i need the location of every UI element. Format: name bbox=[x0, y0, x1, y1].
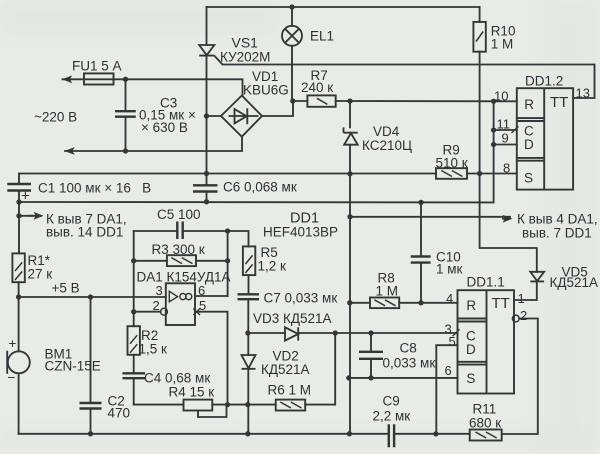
wire DD1.2 pin 11 bbox=[494, 129, 517, 131]
wire VD3 line to DD1.1 pin 3 bbox=[248, 332, 458, 334]
svg-text:2,2 мк: 2,2 мк bbox=[373, 409, 411, 424]
resistor R6 bbox=[276, 400, 306, 411]
svg-text:10: 10 bbox=[494, 89, 508, 104]
svg-text:27 к: 27 к bbox=[28, 267, 53, 282]
svg-text:240 к: 240 к bbox=[301, 80, 333, 95]
label plus minus BM1 bbox=[8, 336, 17, 385]
wire VS1 branch vertical bbox=[206, 7, 208, 202]
svg-text:+5 В: +5 В bbox=[52, 281, 80, 296]
svg-text:+: + bbox=[21, 188, 30, 205]
wire C8 to DD1.1 pin 6 bbox=[349, 377, 458, 379]
capacitor C6 bbox=[193, 185, 218, 191]
wire DA1 output bus bbox=[227, 231, 229, 296]
svg-text:2: 2 bbox=[153, 298, 160, 313]
capacitor C9 bbox=[389, 424, 394, 447]
svg-text:9: 9 bbox=[502, 131, 509, 146]
wire R10 and VD5 branch bbox=[480, 7, 537, 300]
svg-text:C5 100: C5 100 bbox=[157, 207, 201, 222]
svg-text:CZN-15E: CZN-15E bbox=[45, 359, 101, 374]
svg-text:5: 5 bbox=[199, 298, 206, 313]
label R2 bbox=[139, 328, 168, 357]
wire DA1 pin 2 bbox=[134, 311, 161, 313]
svg-text:R: R bbox=[466, 298, 476, 313]
svg-text:R6 1 М: R6 1 М bbox=[268, 383, 312, 398]
wire rail minus (C1 top / S line) bbox=[19, 173, 517, 175]
svg-text:11: 11 bbox=[497, 117, 511, 132]
resistor R10 bbox=[473, 22, 485, 52]
label to pin 4 DA1 bbox=[517, 212, 598, 241]
svg-text:1 М: 1 М bbox=[376, 284, 399, 299]
wire DD1.1 pin 5 to C9 node bbox=[436, 345, 457, 434]
wire to pin 7 DA1 arrow bbox=[19, 215, 41, 217]
svg-text:выв. 14 DD1: выв. 14 DD1 bbox=[46, 225, 123, 240]
svg-text:EL1: EL1 bbox=[310, 29, 334, 44]
svg-text:680 к: 680 к bbox=[469, 416, 501, 431]
svg-text:R: R bbox=[524, 97, 534, 112]
svg-text:1 М: 1 М bbox=[491, 37, 514, 52]
resistor R5 bbox=[243, 246, 255, 275]
svg-text:1,5 к: 1,5 к bbox=[139, 342, 168, 357]
svg-text:S: S bbox=[466, 371, 475, 386]
wire R8 line DD1.1 pin 4 bbox=[350, 302, 458, 304]
label VD2 bbox=[261, 349, 310, 378]
label R7 bbox=[301, 68, 333, 95]
arrowhead mains lower bbox=[65, 147, 75, 155]
resistor R9 bbox=[436, 168, 467, 179]
label C3 bbox=[139, 96, 196, 136]
svg-text:ТТ: ТТ bbox=[550, 94, 568, 111]
wire C1 branch down bbox=[18, 174, 20, 254]
svg-text:D: D bbox=[466, 342, 476, 357]
svg-text:6: 6 bbox=[198, 283, 205, 298]
svg-text:6: 6 bbox=[445, 363, 452, 378]
capacitor C1 bbox=[7, 184, 31, 205]
label cells DD1.2 bbox=[524, 97, 534, 186]
svg-text:D: D bbox=[524, 137, 534, 152]
wire C8 vertical bbox=[370, 333, 372, 378]
capacitor C4 bbox=[123, 373, 146, 378]
wire AC input 1 through fuse to bridge top bbox=[63, 79, 243, 95]
wire C3 vertical bbox=[125, 79, 127, 151]
arrow to pin 4 DA1 bbox=[502, 218, 505, 220]
resistor R3 bbox=[167, 255, 196, 266]
svg-text:510 к: 510 к bbox=[436, 156, 468, 171]
wire C5 line bbox=[134, 231, 249, 246]
label R1 bbox=[28, 253, 53, 282]
svg-text:R3 300 к: R3 300 к bbox=[152, 242, 205, 257]
resistor R2 bbox=[128, 326, 140, 355]
svg-text:DD1.2: DD1.2 bbox=[525, 74, 563, 89]
svg-text:КД521А: КД521А bbox=[550, 275, 599, 290]
label VD1 bbox=[243, 69, 289, 98]
resistor R8 bbox=[370, 298, 399, 309]
svg-text:DA1 К154УД1А: DA1 К154УД1А bbox=[137, 270, 231, 285]
svg-text:−: − bbox=[8, 370, 16, 385]
svg-text:ТТ: ТТ bbox=[492, 295, 510, 312]
fuse FU1 bbox=[84, 73, 114, 84]
svg-text:КУ202М: КУ202М bbox=[220, 50, 270, 65]
svg-text:× 630 В: × 630 В bbox=[141, 120, 188, 135]
svg-text:C7 0,033 мк: C7 0,033 мк bbox=[264, 291, 338, 306]
wire DD1.1 pin 2 to R11 bbox=[502, 319, 538, 435]
resistor R4 bbox=[184, 400, 213, 411]
label C2 bbox=[108, 394, 131, 421]
svg-text:R4 15 к: R4 15 к bbox=[169, 385, 215, 400]
svg-text:13: 13 bbox=[576, 86, 590, 101]
wire bridge right vertex to R7 node bbox=[262, 101, 293, 116]
svg-text:4: 4 bbox=[446, 291, 453, 306]
wire R2 to C4 bbox=[133, 355, 135, 405]
label C9 bbox=[373, 394, 411, 424]
svg-text:2: 2 bbox=[520, 308, 527, 323]
wire AC input 2 to bridge bottom bbox=[65, 137, 242, 151]
wire C2 vertical bbox=[90, 297, 92, 434]
flip-flop DD1.2 bbox=[512, 88, 574, 189]
svg-text:C8: C8 bbox=[400, 341, 417, 356]
svg-text:+: + bbox=[9, 336, 17, 351]
svg-text:КС210Ц: КС210Ц bbox=[362, 138, 412, 153]
diode VD3 bbox=[285, 327, 298, 340]
thyristor VS1 bbox=[199, 45, 222, 65]
capacitor C7 bbox=[238, 294, 260, 299]
wire DA1 pin 6 bbox=[195, 295, 228, 297]
wire C7 to VD2 to ground bbox=[247, 299, 249, 434]
resistor R7 bbox=[307, 95, 335, 106]
wire DA1 pin 5 to R4 node bbox=[195, 312, 228, 405]
wire VD4 vertical to ground bbox=[349, 101, 351, 435]
svg-text:1: 1 bbox=[518, 291, 525, 306]
svg-text:C1 100 мк × 16 В: C1 100 мк × 16 В bbox=[38, 181, 151, 196]
svg-text:выв. 7 DD1: выв. 7 DD1 bbox=[522, 226, 592, 241]
svg-text:HEF4013BP: HEF4013BP bbox=[263, 225, 338, 240]
diode VD2 bbox=[242, 355, 256, 369]
wire R4 R6 line bbox=[134, 333, 336, 405]
junction node dots bbox=[289, 4, 294, 9]
svg-text:1,2 к: 1,2 к bbox=[258, 259, 287, 274]
label R9 bbox=[436, 143, 468, 171]
svg-text:VD4: VD4 bbox=[373, 124, 400, 139]
microphone BM1 bbox=[7, 351, 30, 374]
arrowhead mains upper bbox=[62, 75, 72, 83]
wire rail 2 to DD1.2 input bus bbox=[19, 101, 494, 202]
wire +5V line to DA1 pin 3 bbox=[19, 296, 166, 298]
svg-text:470: 470 bbox=[108, 406, 131, 421]
arrowhead to pin 7 DA1 bbox=[34, 212, 44, 220]
label C8 bbox=[383, 341, 436, 371]
svg-text:R11: R11 bbox=[473, 402, 497, 417]
bridge rectifier VD1 bbox=[221, 96, 262, 137]
label VD5 bbox=[550, 265, 599, 291]
label VD4 bbox=[362, 124, 412, 153]
capacitor C2 bbox=[80, 403, 102, 409]
wire top rail bbox=[207, 6, 480, 8]
resistor R1 bbox=[12, 253, 24, 282]
label C10 bbox=[436, 250, 463, 277]
wire R4 tap bbox=[198, 405, 227, 417]
wire R7 line to pin 10 bbox=[293, 100, 517, 102]
label BM1 bbox=[45, 347, 101, 374]
wire to pin 4 DA1 arrow bbox=[350, 216, 510, 218]
label R5 bbox=[258, 245, 287, 274]
svg-text:C6 0,068 мк: C6 0,068 мк bbox=[223, 180, 297, 195]
svg-text:VD3 КД521А: VD3 КД521А bbox=[253, 311, 332, 326]
wire R3 line bbox=[134, 260, 228, 262]
arrowhead to pin 4 DA1 bbox=[503, 215, 513, 223]
svg-text:C9: C9 bbox=[383, 394, 400, 409]
label cells DD1.1 bbox=[466, 298, 476, 386]
flip-flop DD1.1 bbox=[453, 290, 520, 393]
wire left input bus of DA1 bbox=[133, 231, 135, 326]
diode VD5 bbox=[530, 272, 544, 282]
lamp EL1 bbox=[282, 26, 302, 46]
wire DD1.2 pin 9 bbox=[494, 144, 517, 146]
wire R1 BM1 branch bbox=[18, 282, 20, 434]
svg-text:DD1.1: DD1.1 bbox=[467, 275, 505, 290]
svg-text:C4 0,68 мк: C4 0,68 мк bbox=[144, 371, 210, 386]
svg-text:0,033 мк: 0,033 мк bbox=[383, 356, 436, 371]
capacitor C10 bbox=[411, 257, 431, 263]
zener diode VD4 bbox=[344, 127, 358, 144]
label DD1 bbox=[263, 211, 338, 240]
label to pin 7 DA1 bbox=[46, 212, 127, 240]
wire R5 to C7 bbox=[248, 275, 250, 294]
label R11 bbox=[469, 402, 501, 431]
svg-text:КД521А: КД521А bbox=[261, 362, 310, 377]
svg-text:5: 5 bbox=[449, 334, 456, 349]
resistor R11 bbox=[470, 430, 502, 441]
capacitor C3 bbox=[115, 111, 136, 117]
arrow to pin 7 DA1 bbox=[28, 215, 34, 217]
svg-text:FU1 5 А: FU1 5 А bbox=[72, 59, 122, 74]
wire EL1 vertical bbox=[291, 7, 293, 101]
wire bridge left vertex bbox=[207, 115, 222, 117]
svg-text:S: S bbox=[524, 171, 533, 186]
svg-text:К выв 4 DA1,: К выв 4 DA1, bbox=[517, 212, 598, 227]
capacitor C8 bbox=[359, 352, 383, 359]
svg-text:1 мк: 1 мк bbox=[436, 262, 463, 277]
wire ground rail bbox=[19, 433, 470, 435]
wire gate line from VS1 to pin 13 bbox=[223, 65, 595, 99]
wire C10 vertical bbox=[420, 202, 422, 302]
svg-text:KBU6G: KBU6G bbox=[243, 83, 289, 98]
capacitor C5 bbox=[177, 222, 182, 240]
svg-text:3: 3 bbox=[156, 283, 163, 298]
svg-text:VS1: VS1 bbox=[232, 35, 259, 51]
label R8 bbox=[376, 271, 399, 299]
svg-text:~220 В: ~220 В bbox=[34, 110, 77, 125]
label VS1 bbox=[220, 35, 270, 65]
svg-text:8: 8 bbox=[503, 161, 510, 176]
label R10 bbox=[491, 24, 516, 52]
op-amp DA1 bbox=[161, 283, 200, 325]
